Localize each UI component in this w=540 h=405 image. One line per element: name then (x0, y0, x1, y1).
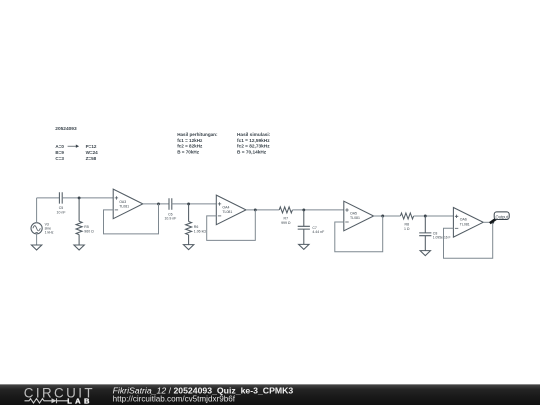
wire OA3 output (143, 203, 169, 205)
wire R7 to OA5 plus input (292, 209, 343, 211)
ground for C8 (420, 251, 430, 256)
wire OA4 feedback loop (207, 210, 256, 241)
label C5 10 nF (57, 206, 66, 214)
svg-text:R7: R7 (284, 216, 289, 220)
capacitor C6 (169, 198, 172, 210)
svg-text:1.095e-16 F: 1.095e-16 F (433, 236, 451, 240)
ground for R6 (183, 245, 193, 250)
wire OA5 feedback loop (335, 216, 383, 252)
wire OA3 feedback loop (104, 204, 159, 234)
svg-text:Z=58: Z=58 (86, 156, 97, 161)
wire top horizontal to C5 (37, 197, 60, 199)
svg-text:Output: Output (496, 214, 509, 219)
ground for R5 (74, 245, 84, 250)
label C7 4.44 nF (312, 226, 324, 234)
op-amp U4 OA6 (453, 208, 483, 238)
node junction C6/R6 (187, 202, 190, 205)
svg-text:fc2 = 82,73kHz: fc2 = 82,73kHz (237, 144, 270, 150)
svg-text:10 nF: 10 nF (57, 210, 66, 214)
wire V3 bottom vertical (36, 234, 38, 245)
svg-text:C=3: C=3 (55, 156, 64, 161)
svg-text:R6: R6 (194, 225, 199, 229)
svg-text:OA6: OA6 (460, 217, 467, 221)
svg-text:http://circuitlab.com/cv5tmjdx: http://circuitlab.com/cv5tmjdxr9b6f (113, 395, 236, 404)
op-amp U3 OA5 (344, 201, 374, 231)
node junction R7/C7 (302, 208, 305, 211)
resistor R8 (400, 213, 413, 219)
wire OA6 feedback loop (444, 222, 493, 258)
svg-text:20524093: 20524093 (55, 126, 77, 132)
wire C6 to OA4 plus input (172, 203, 217, 205)
node junction OA6 out (491, 221, 494, 224)
svg-text:TL081: TL081 (460, 223, 470, 227)
label OA4 TL081 (222, 206, 232, 215)
svg-text:LAB: LAB (67, 397, 93, 405)
svg-text:999 Ω: 999 Ω (281, 221, 291, 225)
capacitor C5 (59, 192, 62, 203)
label R5 960 ohm (84, 225, 94, 233)
capacitor C7 (298, 210, 310, 245)
label C8 1.095e-16 F (433, 232, 451, 240)
svg-text:1 Ω: 1 Ω (404, 227, 410, 231)
node junction R8/C8 (424, 215, 427, 218)
ground for V3 (31, 245, 41, 250)
resistor R5 (76, 198, 82, 245)
label R8 1 ohm (404, 222, 410, 230)
svg-text:B=9: B=9 (55, 150, 64, 155)
output flag (494, 212, 509, 220)
svg-text:W=24: W=24 (86, 150, 99, 155)
label V3 sine 1 kHz (45, 222, 54, 234)
wire OA5 output (374, 215, 401, 217)
resistor R7 (279, 207, 292, 213)
svg-text:B = 70kHz: B = 70kHz (177, 150, 200, 155)
wire OA4 output (246, 209, 279, 211)
wire C5 to OA3 plus input (62, 197, 113, 199)
logo resistor and diode glyph (25, 398, 69, 403)
svg-text:TL081: TL081 (350, 216, 360, 220)
svg-text:fc1 = 12,59kHz: fc1 = 12,59kHz (237, 138, 270, 144)
svg-text:960 Ω: 960 Ω (84, 229, 94, 233)
svg-text:OA5: OA5 (350, 212, 357, 216)
label R6 1.06 kohm (194, 225, 207, 233)
svg-text:fc1 = 12kHz: fc1 = 12kHz (177, 138, 203, 143)
wire OA6 output (483, 221, 493, 223)
svg-text:A=0: A=0 (55, 144, 64, 149)
svg-text:Hasil perhitungan:: Hasil perhitungan: (177, 132, 218, 137)
svg-text:B = 70,14kHz: B = 70,14kHz (237, 150, 267, 156)
wire to output flag (highlighted) (490, 218, 497, 223)
label OA3 TL081 (119, 200, 129, 209)
op-amp U2 OA4 (216, 195, 246, 225)
arrow annotation (68, 145, 79, 147)
label OA5 TL081 (350, 212, 360, 221)
svg-text:R8: R8 (405, 222, 410, 226)
label R7 999 ohm (281, 216, 291, 225)
svg-text:TL081: TL081 (119, 205, 129, 209)
node junction OA3 out (157, 202, 160, 205)
svg-text:1 kHz: 1 kHz (45, 231, 54, 235)
wire R8 to OA6 plus input (414, 215, 454, 217)
svg-text:10.9 nF: 10.9 nF (164, 216, 176, 220)
svg-text:Hasil simulasi:: Hasil simulasi: (237, 132, 271, 138)
bottom banner (0, 384, 540, 405)
svg-text:TL081: TL081 (222, 210, 232, 214)
svg-text:fc2 = 82kHz: fc2 = 82kHz (177, 144, 203, 149)
svg-text:OA4: OA4 (222, 206, 229, 210)
svg-text:4.44 nF: 4.44 nF (312, 230, 324, 234)
ground for C7 (299, 244, 309, 249)
voltage source V1 (V3 sine) (31, 223, 42, 234)
node junction OA5 out (381, 215, 384, 218)
node junction OA4 out (254, 208, 257, 211)
svg-text:P=12: P=12 (86, 144, 97, 149)
node junction C5/R5 (78, 196, 81, 199)
label OA6 TL081 (460, 217, 470, 226)
capacitor C8 (419, 216, 431, 251)
op-amp U1 OA3 (113, 189, 143, 219)
wire V3 top vertical (36, 198, 38, 223)
svg-text:1.06 kΩ: 1.06 kΩ (194, 230, 207, 234)
label C6 10.9 nF (164, 212, 176, 220)
resistor R6 (186, 204, 192, 245)
svg-text:OA3: OA3 (119, 200, 126, 204)
svg-text:R5: R5 (84, 225, 89, 229)
